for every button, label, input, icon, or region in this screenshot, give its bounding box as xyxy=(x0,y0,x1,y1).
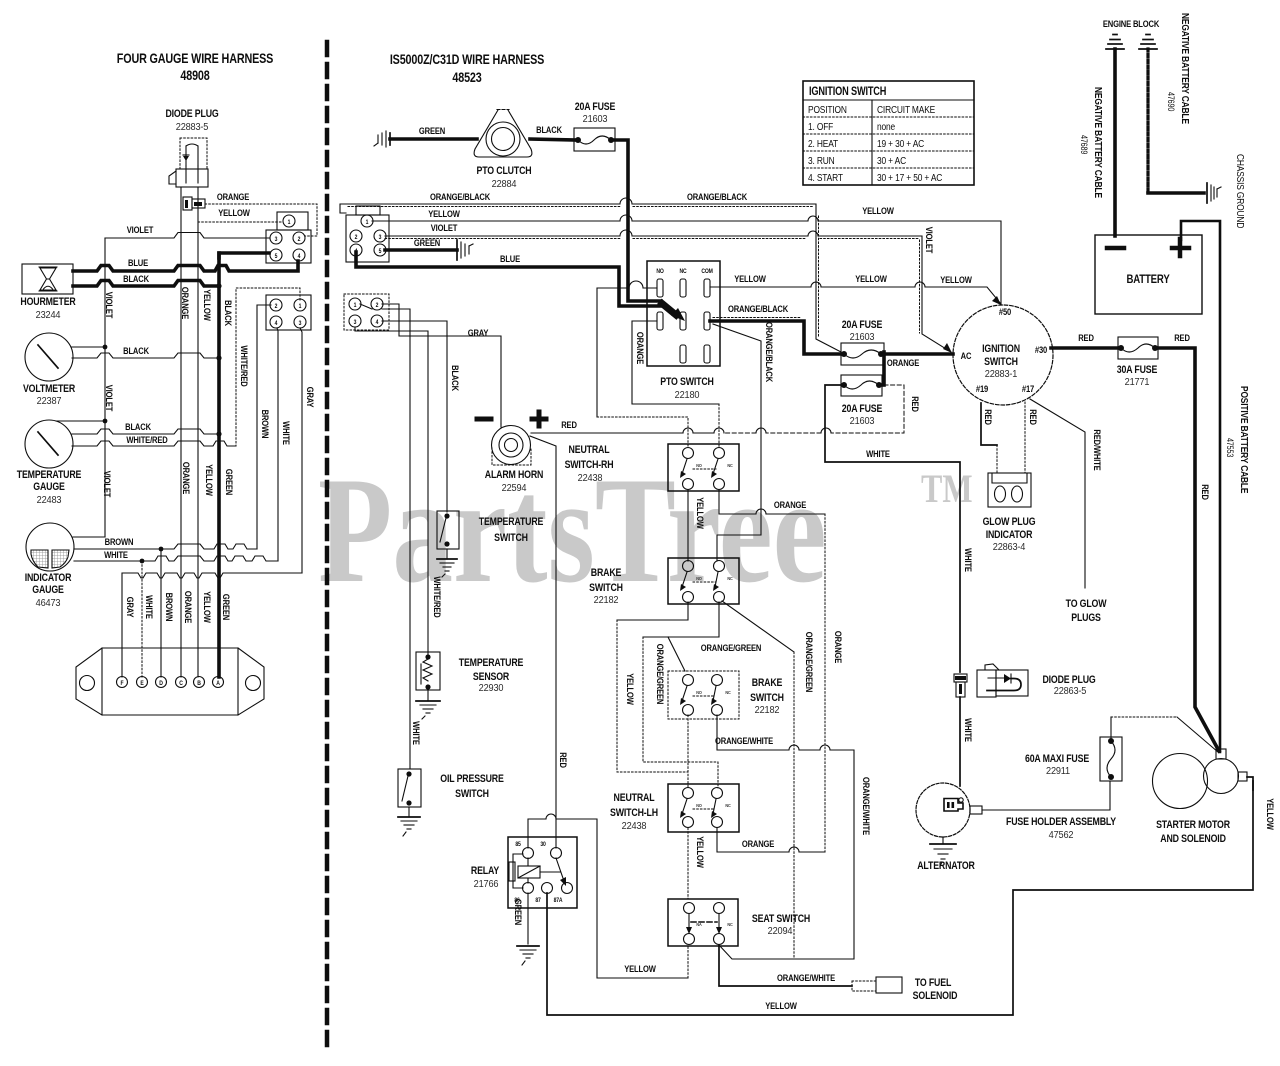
wire 60A fuse top to solenoid xyxy=(1110,717,1112,738)
30A fuse xyxy=(1117,337,1158,388)
wire gray cross-run xyxy=(122,573,302,677)
svg-text:NA: NA xyxy=(696,922,701,927)
svg-text:RED: RED xyxy=(1078,332,1094,343)
svg-text:POSITIVE BATTERY CABLE: POSITIVE BATTERY CABLE xyxy=(1238,386,1250,493)
svg-text:22182: 22182 xyxy=(755,705,780,716)
svg-text:YELLOW: YELLOW xyxy=(695,836,706,868)
LEFT-SECTION xyxy=(17,108,317,715)
svg-text:WHITE: WHITE xyxy=(963,548,974,572)
svg-text:1. OFF: 1. OFF xyxy=(808,121,833,133)
neutral switch RH xyxy=(565,444,739,491)
svg-text:21603: 21603 xyxy=(850,332,875,343)
svg-text:47689: 47689 xyxy=(1079,135,1089,155)
svg-text:NO: NO xyxy=(696,690,702,695)
svg-text:BLUE: BLUE xyxy=(500,253,520,264)
svg-text:22438: 22438 xyxy=(578,473,603,484)
yellow column xyxy=(197,187,199,677)
svg-text:ORANGE/BLACK: ORANGE/BLACK xyxy=(728,303,789,314)
svg-text:DIODE PLUG: DIODE PLUG xyxy=(165,108,219,120)
ground oil pressure xyxy=(398,807,420,836)
svg-text:ORANGE: ORANGE xyxy=(217,191,250,202)
starter motor and solenoid xyxy=(1153,749,1248,845)
svg-text:NEUTRAL: NEUTRAL xyxy=(569,444,610,456)
svg-text:#19: #19 xyxy=(976,383,989,394)
pin D xyxy=(156,677,167,688)
wire yellow relay-85 loop xyxy=(528,814,688,978)
svg-text:1: 1 xyxy=(288,220,291,226)
svg-text:TM: TM xyxy=(921,467,973,511)
separator dashed line xyxy=(325,42,330,1052)
svg-text:30: 30 xyxy=(540,842,545,848)
svg-text:SEAT SWITCH: SEAT SWITCH xyxy=(752,913,810,925)
wire BLACK to temp switch xyxy=(382,321,447,512)
wire WHITE/RED to temp sensor xyxy=(355,327,428,654)
wire brown D drop xyxy=(160,549,162,677)
svg-text:1: 1 xyxy=(354,303,357,309)
svg-text:2. HEAT: 2. HEAT xyxy=(808,138,838,150)
svg-text:TEMPERATURE: TEMPERATURE xyxy=(479,516,544,528)
svg-text:BLACK: BLACK xyxy=(450,365,461,392)
svg-text:2: 2 xyxy=(298,237,301,243)
svg-text:ORANGE/WHITE: ORANGE/WHITE xyxy=(777,972,835,983)
PTO switch xyxy=(647,261,720,401)
alternator xyxy=(916,783,982,872)
svg-text:ORANGE/GREEN: ORANGE/GREEN xyxy=(655,644,666,705)
wire WHITE to oil pressure xyxy=(382,309,410,768)
svg-text:ORANGE: ORANGE xyxy=(742,838,775,849)
svg-text:WHITE: WHITE xyxy=(104,549,128,560)
svg-text:47553: 47553 xyxy=(1225,438,1235,458)
svg-text:PTO SWITCH: PTO SWITCH xyxy=(660,376,713,388)
svg-text:VIOLET: VIOLET xyxy=(104,385,115,412)
svg-text:4. START: 4. START xyxy=(808,172,843,184)
svg-text:ORANGE/BLACK: ORANGE/BLACK xyxy=(430,191,491,202)
svg-text:VOLTMETER: VOLTMETER xyxy=(23,383,75,395)
svg-text:AC: AC xyxy=(961,350,972,361)
wire yellow brake1-BL to left column xyxy=(617,602,688,620)
svg-text:ORANGE/WHITE: ORANGE/WHITE xyxy=(861,777,872,835)
svg-text:BLACK: BLACK xyxy=(125,421,152,432)
svg-text:3: 3 xyxy=(354,320,357,326)
svg-text:ORANGE/GREEN: ORANGE/GREEN xyxy=(804,632,815,693)
connector plug small (left) xyxy=(183,197,205,210)
junction dots black column xyxy=(216,283,221,288)
svg-text:BRAKE: BRAKE xyxy=(752,677,783,689)
temperature gauge xyxy=(17,420,82,506)
svg-text:RED: RED xyxy=(561,419,577,430)
svg-text:NO: NO xyxy=(696,576,702,581)
temperature sensor xyxy=(416,652,524,694)
wire YELLOW from PTO NO r1 xyxy=(597,281,657,417)
pin F xyxy=(117,677,128,688)
svg-text:YELLOW: YELLOW xyxy=(940,274,972,285)
wire orange/green diag brake1-BR to x794 xyxy=(722,601,794,652)
svg-text:YELLOW: YELLOW xyxy=(625,673,636,705)
gray column xyxy=(300,328,302,573)
svg-text:87A: 87A xyxy=(554,898,563,904)
voltmeter xyxy=(23,333,75,407)
svg-text:STARTER MOTOR: STARTER MOTOR xyxy=(1156,819,1230,831)
bottom connector shell xyxy=(76,648,264,715)
wire YELLOW NSRH to brake1 xyxy=(687,490,689,561)
svg-text:19 + 30 + AC: 19 + 30 + AC xyxy=(877,138,924,150)
svg-text:ORANGE: ORANGE xyxy=(180,287,191,320)
svg-text:SWITCH: SWITCH xyxy=(494,532,528,544)
svg-text:NC: NC xyxy=(727,922,732,927)
ground alternator xyxy=(930,837,956,866)
svg-text:3: 3 xyxy=(299,321,302,327)
svg-text:YELLOW: YELLOW xyxy=(204,464,215,496)
svg-text:INDICATOR: INDICATOR xyxy=(986,529,1033,541)
svg-text:BROWN: BROWN xyxy=(260,410,271,439)
svg-text:30A FUSE: 30A FUSE xyxy=(1117,364,1158,376)
svg-text:1: 1 xyxy=(366,220,369,226)
svg-text:20A FUSE: 20A FUSE xyxy=(842,319,883,331)
svg-text:YELLOW: YELLOW xyxy=(1265,798,1276,830)
fuel solenoid connector xyxy=(852,977,957,1002)
wire fuse to PTO switch thick xyxy=(611,140,661,301)
ground at PTO clutch xyxy=(374,131,390,147)
svg-text:#30: #30 xyxy=(1035,344,1048,355)
svg-text:SWITCH: SWITCH xyxy=(589,582,623,594)
svg-text:NC: NC xyxy=(727,576,732,581)
svg-text:YELLOW: YELLOW xyxy=(218,207,250,218)
svg-text:IS5000Z/C31D WIRE HARNESS: IS5000Z/C31D WIRE HARNESS xyxy=(390,52,544,67)
alarm horn xyxy=(477,412,546,494)
svg-text:GREEN: GREEN xyxy=(221,594,232,620)
pin A xyxy=(213,677,224,688)
svg-text:VIOLET: VIOLET xyxy=(104,292,115,319)
svg-text:SWITCH: SWITCH xyxy=(455,788,489,800)
black column xyxy=(217,253,221,677)
orange column xyxy=(180,187,182,677)
svg-text:22438: 22438 xyxy=(622,821,647,832)
svg-text:SENSOR: SENSOR xyxy=(473,671,509,683)
svg-text:47562: 47562 xyxy=(1049,830,1074,841)
RIGHT-SECTION-3 xyxy=(471,444,1276,1015)
svg-text:GRAY: GRAY xyxy=(468,327,489,338)
svg-text:3: 3 xyxy=(379,235,382,241)
svg-text:NC: NC xyxy=(680,269,687,275)
svg-text:GRAY: GRAY xyxy=(125,597,136,618)
svg-text:SOLENOID: SOLENOID xyxy=(913,990,958,1002)
svg-text:FUSE HOLDER ASSEMBLY: FUSE HOLDER ASSEMBLY xyxy=(1006,816,1116,828)
svg-text:YELLOW: YELLOW xyxy=(855,273,887,284)
svg-text:VIOLET: VIOLET xyxy=(924,227,935,254)
negative battery cable 2 dotted xyxy=(1146,49,1149,193)
svg-text:ORANGE/BLACK: ORANGE/BLACK xyxy=(687,191,748,202)
violet column xyxy=(104,238,106,537)
svg-text:BLACK: BLACK xyxy=(123,273,150,284)
wire alternator to 60A fuse xyxy=(982,781,1110,810)
20A fuse mid 1 xyxy=(841,319,884,365)
hourmeter xyxy=(20,264,75,321)
svg-text:5: 5 xyxy=(275,254,278,260)
svg-text:2: 2 xyxy=(275,304,278,310)
svg-text:22930: 22930 xyxy=(479,683,504,694)
svg-text:OIL PRESSURE: OIL PRESSURE xyxy=(440,773,504,785)
svg-text:3: 3 xyxy=(275,237,278,243)
brake switch 2 (dashed) xyxy=(668,671,784,719)
svg-text:NO: NO xyxy=(696,803,702,808)
chassis ground xyxy=(1207,183,1221,203)
svg-text:ALARM HORN: ALARM HORN xyxy=(485,469,543,481)
svg-text:30 + AC: 30 + AC xyxy=(877,155,906,167)
svg-text:YELLOW: YELLOW xyxy=(862,205,894,216)
svg-text:22094: 22094 xyxy=(768,926,793,937)
svg-text:RED: RED xyxy=(1200,484,1211,500)
svg-text:22863-5: 22863-5 xyxy=(1054,686,1086,697)
wire green relay 86 to ground xyxy=(527,893,529,944)
svg-text:2: 2 xyxy=(376,303,379,309)
svg-text:30 + 17 + 50 + AC: 30 + 17 + 50 + AC xyxy=(877,172,942,184)
svg-text:BLACK: BLACK xyxy=(123,345,150,356)
svg-text:WHITE: WHITE xyxy=(963,718,974,742)
svg-text:VIOLET: VIOLET xyxy=(102,471,113,498)
svg-text:CIRCUIT MAKE: CIRCUIT MAKE xyxy=(877,104,935,116)
ignition switch circle xyxy=(943,296,1053,405)
svg-text:YELLOW: YELLOW xyxy=(734,273,766,284)
wire yellow NSLH-BL to seat xyxy=(687,828,689,899)
svg-text:NC: NC xyxy=(727,463,732,468)
svg-text:22594: 22594 xyxy=(502,483,527,494)
svg-text:BRAKE: BRAKE xyxy=(591,567,622,579)
svg-text:HOURMETER: HOURMETER xyxy=(20,296,75,308)
temperature switch xyxy=(437,511,544,549)
svg-text:POSITION: POSITION xyxy=(808,104,847,116)
RIGHT-SECTION-2 xyxy=(398,296,1219,848)
svg-text:BROWN: BROWN xyxy=(164,593,175,622)
connector 5-pin (PTO harness) xyxy=(346,206,389,262)
relay xyxy=(471,837,577,908)
svg-text:WHITE: WHITE xyxy=(144,595,155,619)
svg-text:CHASSIS GROUND: CHASSIS GROUND xyxy=(1234,154,1246,229)
brake switch 1 xyxy=(589,558,739,606)
svg-text:20A FUSE: 20A FUSE xyxy=(842,403,883,415)
svg-text:NO: NO xyxy=(696,463,702,468)
wire white E drop xyxy=(141,561,143,677)
svg-text:IGNITION SWITCH: IGNITION SWITCH xyxy=(809,86,886,98)
ground green r1 xyxy=(457,240,473,260)
svg-text:SWITCH-RH: SWITCH-RH xyxy=(565,459,614,471)
svg-text:SWITCH: SWITCH xyxy=(984,356,1018,368)
svg-text:BLUE: BLUE xyxy=(128,257,148,268)
svg-text:TEMPERATURE: TEMPERATURE xyxy=(17,469,82,481)
svg-text:GAUGE: GAUGE xyxy=(33,481,65,493)
arrowhead into PTO NC xyxy=(662,304,676,316)
svg-text:NEGATIVE BATTERY CABLE: NEGATIVE BATTERY CABLE xyxy=(1179,13,1191,124)
svg-text:WHITE: WHITE xyxy=(411,721,422,745)
svg-text:YELLOW: YELLOW xyxy=(624,963,656,974)
svg-text:GREEN: GREEN xyxy=(224,469,235,495)
svg-text:#50: #50 xyxy=(999,306,1012,317)
svg-text:22863-4: 22863-4 xyxy=(993,542,1026,553)
svg-text:SWITCH-LH: SWITCH-LH xyxy=(610,807,658,819)
svg-text:GREEN: GREEN xyxy=(419,125,445,136)
RIGHT-SECTION xyxy=(340,13,1250,768)
svg-text:2: 2 xyxy=(355,235,358,241)
LEFT-TITLES xyxy=(117,51,273,83)
svg-text:22483: 22483 xyxy=(37,495,62,506)
wire voltmeter violet xyxy=(71,346,105,348)
svg-text:ENGINE BLOCK: ENGINE BLOCK xyxy=(1103,18,1160,29)
svg-text:48523: 48523 xyxy=(452,70,482,85)
svg-text:YELLOW: YELLOW xyxy=(428,208,460,219)
svg-text:60A MAXI FUSE: 60A MAXI FUSE xyxy=(1025,753,1090,765)
svg-text:NC: NC xyxy=(725,803,730,808)
svg-text:21766: 21766 xyxy=(474,879,499,890)
svg-text:VIOLET: VIOLET xyxy=(127,224,154,235)
battery xyxy=(1095,235,1202,314)
diode plug right xyxy=(977,664,1096,697)
svg-text:WHITE/RED: WHITE/RED xyxy=(432,576,443,617)
svg-text:FOUR GAUGE WIRE HARNESS: FOUR GAUGE WIRE HARNESS xyxy=(117,51,273,66)
wire white connector to alternator xyxy=(959,697,961,786)
svg-text:ORANGE: ORANGE xyxy=(887,357,920,368)
svg-text:none: none xyxy=(877,121,895,133)
svg-text:A: A xyxy=(216,681,220,687)
20A fuse top xyxy=(574,101,616,151)
svg-text:TO GLOW: TO GLOW xyxy=(1066,598,1107,610)
engine ground 2 xyxy=(1139,35,1157,50)
wire orange/green brake1-BR xyxy=(643,602,719,637)
svg-text:ORANGE: ORANGE xyxy=(833,631,844,664)
wire thick fuse1-fuse2 link xyxy=(882,352,886,385)
connector 4-pin (left) xyxy=(266,295,311,330)
svg-text:3. RUN: 3. RUN xyxy=(808,155,835,167)
svg-text:YELLOW: YELLOW xyxy=(202,591,213,623)
wire brake2-BL down to NSLH xyxy=(687,715,689,788)
svg-text:SWITCH: SWITCH xyxy=(750,692,784,704)
wire black thick pin5 xyxy=(219,253,269,258)
svg-text:ORANGE: ORANGE xyxy=(774,499,807,510)
svg-text:RED: RED xyxy=(1174,332,1190,343)
PTO clutch xyxy=(474,110,532,191)
pin B xyxy=(194,677,205,688)
svg-text:BLACK: BLACK xyxy=(536,124,563,135)
watermark PartsTree xyxy=(318,445,973,614)
indicator gauge xyxy=(25,523,74,609)
svg-text:WHITE/RED: WHITE/RED xyxy=(126,434,167,445)
svg-text:NEUTRAL: NEUTRAL xyxy=(614,792,655,804)
ground relay xyxy=(517,946,539,965)
svg-text:IGNITION: IGNITION xyxy=(982,343,1020,355)
svg-text:ORANGE: ORANGE xyxy=(181,462,192,495)
white/red column xyxy=(236,288,300,446)
svg-text:TO FUEL: TO FUEL xyxy=(915,977,951,989)
svg-text:22883-1: 22883-1 xyxy=(985,369,1017,380)
connector 5-pin (left) xyxy=(266,212,311,263)
svg-text:46473: 46473 xyxy=(36,598,61,609)
positive battery cable xyxy=(1181,221,1220,752)
svg-text:YELLOW: YELLOW xyxy=(765,1000,797,1011)
svg-text:47690: 47690 xyxy=(1166,92,1176,112)
svg-text:C: C xyxy=(179,681,183,687)
ground temp switch xyxy=(437,549,457,577)
svg-text:ORANGE: ORANGE xyxy=(635,332,646,365)
svg-text:NO: NO xyxy=(656,269,664,275)
svg-text:AND SOLENOID: AND SOLENOID xyxy=(1160,833,1225,845)
svg-text:22883-5: 22883-5 xyxy=(176,122,208,133)
svg-text:#17: #17 xyxy=(1022,383,1035,394)
brown column xyxy=(257,305,271,549)
svg-text:D: D xyxy=(159,681,163,687)
svg-text:GRAY: GRAY xyxy=(305,387,316,408)
diode plug (left) symbol xyxy=(169,138,208,187)
svg-text:PLUGS: PLUGS xyxy=(1071,612,1101,624)
ignition switch table xyxy=(803,81,974,185)
svg-text:RED: RED xyxy=(1028,409,1039,425)
svg-text:20A FUSE: 20A FUSE xyxy=(575,101,616,113)
neutral switch LH xyxy=(610,784,739,832)
svg-text:85: 85 xyxy=(515,842,520,848)
svg-text:RED: RED xyxy=(983,409,994,425)
svg-text:22182: 22182 xyxy=(594,595,619,606)
svg-text:GAUGE: GAUGE xyxy=(32,584,64,596)
svg-text:TEMPERATURE: TEMPERATURE xyxy=(459,657,524,669)
pin C xyxy=(176,677,187,688)
svg-text:COM: COM xyxy=(701,269,713,275)
svg-text:YELLOW: YELLOW xyxy=(202,289,213,321)
svg-text:RELAY: RELAY xyxy=(471,865,500,877)
svg-text:GREEN: GREEN xyxy=(414,237,440,248)
svg-text:WHITE/RED: WHITE/RED xyxy=(239,345,250,386)
svg-text:21603: 21603 xyxy=(850,416,875,427)
svg-text:ORANGE/GREEN: ORANGE/GREEN xyxy=(701,642,762,653)
svg-text:B: B xyxy=(197,681,201,687)
negative battery cable 1 xyxy=(1113,49,1117,236)
wire temp violet xyxy=(56,420,105,422)
connector 4-pin (PTO harness) xyxy=(344,294,389,330)
wire indicator violet xyxy=(73,536,105,538)
svg-text:87: 87 xyxy=(535,898,540,904)
svg-text:DIODE PLUG: DIODE PLUG xyxy=(1042,674,1096,686)
svg-text:ORANGE/WHITE: ORANGE/WHITE xyxy=(715,735,773,746)
white inline connector xyxy=(954,674,967,697)
svg-text:22911: 22911 xyxy=(1046,766,1070,777)
svg-text:ALTERNATOR: ALTERNATOR xyxy=(917,860,975,872)
svg-text:1: 1 xyxy=(299,304,302,310)
pin E xyxy=(137,677,148,688)
ground temp sensor xyxy=(416,690,440,719)
wire ORANGE from NO r2 xyxy=(632,321,719,404)
svg-text:21603: 21603 xyxy=(583,114,608,125)
svg-text:VIOLET: VIOLET xyxy=(431,222,458,233)
svg-text:INDICATOR: INDICATOR xyxy=(25,572,72,584)
oil pressure switch xyxy=(398,769,504,807)
svg-text:RED: RED xyxy=(558,752,569,768)
svg-text:23244: 23244 xyxy=(36,310,61,321)
svg-text:NEGATIVE BATTERY CABLE: NEGATIVE BATTERY CABLE xyxy=(1092,87,1104,198)
svg-text:NC: NC xyxy=(725,690,730,695)
svg-text:WHITE: WHITE xyxy=(866,448,890,459)
wire ORANGE/BLACK diag to brake1 xyxy=(713,324,761,561)
svg-text:BATTERY: BATTERY xyxy=(1126,273,1170,286)
svg-text:48908: 48908 xyxy=(180,68,210,83)
seat switch xyxy=(668,899,810,946)
svg-text:GREEN: GREEN xyxy=(513,899,524,925)
svg-text:BLACK: BLACK xyxy=(223,300,234,327)
svg-text:RED/WHITE: RED/WHITE xyxy=(1092,429,1103,471)
svg-text:YELLOW: YELLOW xyxy=(695,497,706,529)
svg-text:ORANGE: ORANGE xyxy=(183,591,194,624)
svg-text:GLOW PLUG: GLOW PLUG xyxy=(983,516,1036,528)
svg-text:ORANGE/BLACK: ORANGE/BLACK xyxy=(764,322,775,383)
60A maxi fuse xyxy=(1025,737,1122,781)
svg-text:5: 5 xyxy=(379,249,382,255)
svg-text:22387: 22387 xyxy=(37,396,62,407)
svg-text:22180: 22180 xyxy=(675,390,700,401)
